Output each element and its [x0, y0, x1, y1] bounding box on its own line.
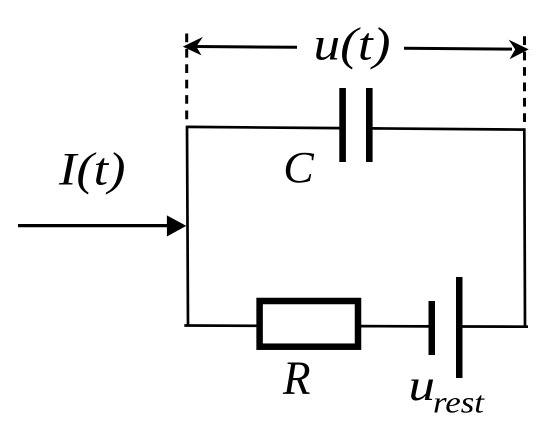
svg-text:u(t): u(t) — [314, 18, 391, 70]
svg-text:R: R — [282, 353, 310, 405]
svg-text:I(t): I(t) — [58, 144, 126, 196]
svg-text:C: C — [283, 143, 314, 192]
svg-text:rest: rest — [433, 385, 486, 420]
svg-text:u: u — [409, 361, 436, 410]
